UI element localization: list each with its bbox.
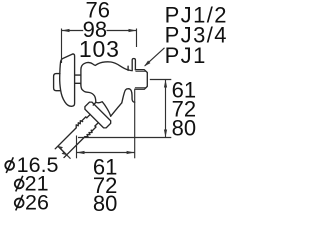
- phi symbol row1: [5, 157, 14, 173]
- svg-text:80: 80: [172, 115, 196, 140]
- bottom flange bump: [122, 89, 135, 103]
- hose nipple tube: [55, 128, 85, 158]
- coupling nut: [84, 101, 112, 129]
- arrow right dim down: [164, 130, 167, 138]
- barb zigzag bottom: [85, 130, 93, 138]
- right dim line: [165, 80, 167, 138]
- phi symbol row3: [15, 195, 24, 211]
- thread block PJ: [135, 70, 148, 90]
- PJ leader: [145, 48, 165, 66]
- handle wheel (side view): [60, 54, 75, 106]
- svg-text:80: 80: [93, 191, 117, 216]
- right dim ext top: [150, 79, 172, 81]
- body lower-right outline: [111, 103, 122, 116]
- ext line left (handle): [61, 29, 63, 64]
- arrow PJ leader: [144, 61, 150, 67]
- arrowheads: [58, 29, 167, 155]
- pipe to nut: [87, 114, 99, 126]
- top pipe tab: [132, 59, 135, 71]
- arrow top-left: [62, 29, 70, 32]
- collar: [82, 117, 96, 131]
- arrow phi SE: [62, 152, 67, 155]
- body underside web: [96, 102, 111, 117]
- phi dim line: [58, 146, 71, 159]
- bottom ext left: [76, 136, 78, 159]
- spout group rotated 45deg: [49, 101, 112, 164]
- top dim line 98: [62, 30, 137, 32]
- ext line right (pipe): [136, 29, 138, 48]
- svg-text:103: 103: [79, 36, 120, 62]
- arrow bottom-left: [77, 151, 85, 154]
- phi symbol row2: [15, 176, 24, 192]
- bottom ext right: [134, 90, 136, 159]
- arrow bottom-right: [127, 151, 135, 154]
- body lower-left outline: [81, 85, 111, 116]
- arrow phi NW: [58, 146, 63, 149]
- handle stem: [75, 75, 81, 83]
- bottom dim line: [77, 152, 135, 154]
- handle knob: [54, 74, 60, 91]
- right dim ext bottom: [78, 137, 171, 139]
- svg-text:PJ1: PJ1: [165, 43, 207, 68]
- neck stub: [93, 102, 96, 105]
- svg-text:26: 26: [25, 191, 49, 215]
- arrow top-right: [129, 29, 137, 32]
- arrow right dim up: [164, 80, 167, 88]
- body rib stub: [127, 66, 129, 70]
- body upper outline: [81, 62, 131, 85]
- barb zigzag top: [75, 120, 83, 128]
- dimension graphics: [58, 29, 171, 159]
